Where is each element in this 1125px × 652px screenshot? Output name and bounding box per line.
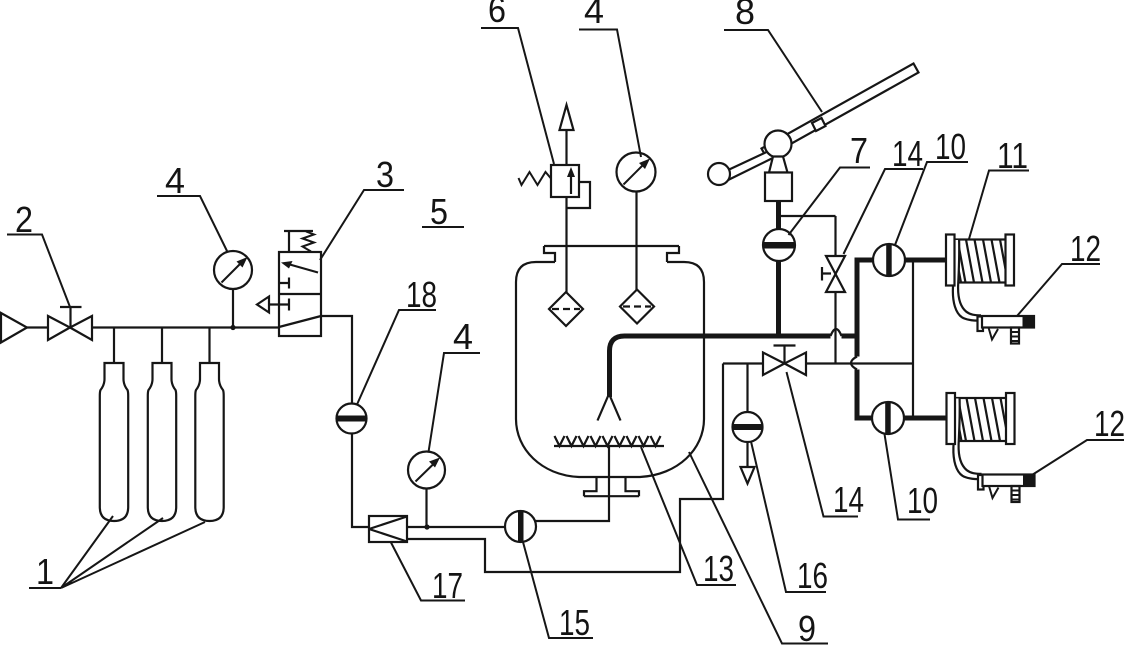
tank bottom flange plate	[584, 495, 639, 497]
label 8	[724, 0, 822, 112]
label 10 lower	[884, 434, 938, 521]
svg-text:12: 12	[1070, 228, 1101, 269]
wire inlet to valve 2	[27, 326, 48, 328]
reel 11 right flange upper	[1006, 235, 1015, 286]
spray gun 12 lower	[978, 475, 1035, 503]
wire gauge 4a tap	[232, 289, 234, 328]
wire valve 14a upper stub	[834, 216, 836, 256]
thick pipe manifold riser lower	[854, 370, 859, 421]
label 14 lower	[786, 372, 864, 520]
node junction gauge 4c	[424, 524, 429, 529]
label 7	[789, 130, 871, 235]
monitor handle	[724, 150, 775, 180]
label 6	[481, 0, 554, 164]
reel 11 right flange lower	[1006, 393, 1015, 444]
monitor funnel	[769, 157, 788, 173]
tank top flange right step	[667, 246, 679, 262]
node junction gauge 4a	[230, 325, 235, 330]
label 13	[641, 447, 736, 589]
svg-text:14: 14	[833, 479, 864, 520]
svg-text:13: 13	[703, 548, 734, 589]
svg-text:16: 16	[797, 555, 828, 596]
label 14 upper	[844, 133, 924, 254]
label 3	[320, 154, 404, 260]
monitor barrel	[762, 64, 919, 158]
wire gauge 4c tap	[425, 488, 427, 527]
cylinder 1c	[195, 363, 223, 521]
sparger 13 pipe	[554, 445, 664, 447]
svg-text:6: 6	[488, 0, 506, 30]
filter 17	[369, 516, 407, 542]
thick pipe reel branch 2	[854, 416, 948, 421]
monitor handle ball	[708, 163, 730, 185]
label 16	[751, 442, 828, 597]
nozzle diamond right	[620, 290, 654, 324]
svg-text:8: 8	[735, 0, 755, 32]
cylinder 1a	[100, 363, 128, 521]
hose of reel 11 upper	[955, 240, 981, 318]
reel 11 left flange upper	[946, 235, 955, 286]
wire drop to cylinder 1b	[161, 327, 163, 363]
svg-text:4: 4	[453, 316, 473, 357]
svg-text:4: 4	[165, 160, 185, 201]
inlet arrow	[1, 313, 27, 343]
svg-text:10: 10	[935, 126, 966, 167]
wire main supply header	[92, 326, 279, 328]
hose of reel 11 lower	[956, 399, 982, 477]
wire valve 3 outlet down to filter 17	[321, 316, 369, 527]
svg-text:18: 18	[406, 274, 437, 315]
gauge 4a	[214, 251, 252, 289]
wire drop to cylinder 1c	[208, 327, 210, 363]
label 17	[391, 542, 465, 606]
wire separator 15 to tank drain elbow	[520, 446, 609, 521]
safety valve 6	[519, 105, 591, 292]
monitor base	[765, 173, 792, 202]
thick pipe tank dip tube and main discharge	[609, 336, 830, 397]
sparger spray vees	[554, 436, 660, 446]
wire valve 14b to riser x913	[806, 362, 913, 364]
label 4 gauge 4a	[157, 160, 228, 252]
cylinder 1b	[148, 363, 176, 521]
svg-text:7: 7	[850, 130, 868, 171]
nozzle diamond left	[549, 292, 583, 326]
wire valve 14a lower stub crossing thick main	[834, 292, 836, 364]
label 12 lower	[1032, 403, 1125, 475]
wire riser between reel branches	[912, 260, 914, 418]
wire secondary return line	[407, 363, 723, 572]
flow meter 7	[763, 229, 795, 261]
label 18	[357, 274, 437, 405]
gauge 4b	[617, 153, 656, 291]
gauge 4c	[408, 451, 445, 488]
tank 13 shell	[516, 262, 704, 477]
valve 14a	[822, 256, 845, 292]
thick pipe main discharge after crossing	[842, 334, 860, 339]
label 1	[29, 516, 205, 592]
svg-text:14: 14	[892, 133, 923, 174]
label 4 gauge 4c	[428, 316, 480, 452]
label 2	[7, 199, 70, 307]
svg-text:1: 1	[36, 551, 54, 592]
wire filter 17 to separator 15 to tank drain	[407, 526, 521, 528]
monitor pivot	[765, 131, 792, 158]
foam monitor 8	[708, 64, 919, 202]
monitor sight square	[812, 118, 826, 131]
svg-text:3: 3	[376, 154, 394, 195]
drain cock 16	[732, 412, 762, 484]
svg-text:15: 15	[559, 602, 590, 643]
pipe hop crossing at y363	[851, 357, 857, 370]
valve 2	[48, 307, 92, 340]
svg-text:10: 10	[907, 480, 938, 521]
flow indicator 18	[336, 403, 366, 433]
wire monitor branch to valve 14a	[779, 215, 836, 217]
spray gun 12 upper	[977, 316, 1034, 344]
label 15	[523, 542, 593, 643]
tank bottom flange neck	[584, 476, 639, 496]
thick pipe reel branch 1	[855, 258, 948, 263]
reel 11 left flange lower	[946, 393, 955, 444]
separator 15	[505, 511, 536, 542]
pipe hop crossing at x836	[831, 329, 842, 336]
reel 11 coil drum upper	[954, 240, 1006, 283]
label 4 gauge 4b	[579, 0, 641, 157]
wire drop to cylinder 1a	[113, 327, 115, 363]
svg-text:12: 12	[1094, 403, 1125, 444]
label 10 upper	[895, 126, 968, 245]
thick pipe monitor riser	[776, 201, 781, 336]
hose reel 11 upper assembly	[946, 235, 1034, 344]
svg-text:4: 4	[584, 0, 604, 31]
reel 11 coil drum lower	[954, 398, 1006, 441]
label 11	[969, 135, 1029, 239]
dip tube fork	[597, 395, 620, 421]
thick pipe manifold riser upper	[854, 258, 859, 357]
label 9	[689, 452, 828, 649]
flow indicator 10 upper	[873, 244, 905, 276]
label 5	[422, 191, 464, 232]
tank top flange plate	[544, 245, 679, 247]
wire drain cock 16 branch	[746, 364, 748, 468]
flow indicator 10 lower	[872, 402, 904, 434]
valve 14b	[763, 346, 806, 376]
tank top flange left step	[544, 246, 555, 262]
svg-text:5: 5	[430, 191, 448, 232]
valve 3	[257, 231, 321, 336]
wire bypass line to valve 14b	[723, 362, 763, 364]
label 12 upper	[1017, 228, 1101, 316]
hose reel 11 lower assembly	[946, 393, 1034, 502]
